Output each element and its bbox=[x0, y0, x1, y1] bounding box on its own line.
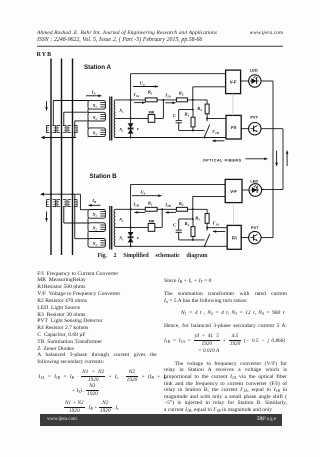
svg-text:Ns: Ns bbox=[118, 218, 123, 223]
svg-text:PVT: PVT bbox=[250, 115, 258, 120]
svg-text:I2A: I2A bbox=[164, 92, 170, 98]
svg-text:OPTICAL FIBERS: OPTICAL FIBERS bbox=[203, 158, 242, 162]
svg-text:F/I: F/I bbox=[232, 235, 237, 240]
svg-text:Ua: Ua bbox=[140, 81, 145, 87]
svg-text:z: z bbox=[136, 235, 139, 240]
svg-text:R4: R4 bbox=[185, 111, 190, 117]
svg-text:R3: R3 bbox=[195, 216, 200, 222]
svg-text:I2B: I2B bbox=[164, 202, 170, 208]
svg-text:F/I: F/I bbox=[231, 125, 236, 130]
svg-text:I′1B: I′1B bbox=[211, 129, 219, 135]
svg-text:IA: IA bbox=[91, 90, 96, 96]
svg-text:Ns: Ns bbox=[118, 237, 123, 242]
svg-text:Station B: Station B bbox=[90, 173, 118, 180]
svg-text:R1: R1 bbox=[148, 89, 153, 95]
svg-text:I1B: I1B bbox=[132, 202, 138, 208]
svg-text:MR: MR bbox=[149, 219, 155, 223]
svg-text:PVT: PVT bbox=[251, 225, 259, 230]
svg-text:I1A: I1A bbox=[133, 92, 139, 98]
svg-text:z: z bbox=[136, 126, 139, 131]
svg-text:C: C bbox=[173, 222, 176, 227]
svg-text:V-F: V-F bbox=[230, 80, 237, 85]
svg-text:LED: LED bbox=[250, 67, 258, 72]
svg-text:Ub: Ub bbox=[140, 189, 145, 195]
svg-text:Station A: Station A bbox=[84, 64, 111, 71]
svg-text:C: C bbox=[173, 113, 176, 118]
svg-text:IB: IB bbox=[91, 198, 96, 204]
svg-text:R2: R2 bbox=[179, 91, 184, 97]
svg-text:Ns: Ns bbox=[118, 109, 123, 114]
svg-text:Ns: Ns bbox=[118, 128, 123, 133]
svg-text:I′1A: I′1A bbox=[212, 220, 220, 226]
svg-text:R4: R4 bbox=[185, 221, 190, 227]
svg-text:MR: MR bbox=[149, 110, 155, 114]
svg-text:R2: R2 bbox=[179, 201, 184, 207]
svg-text:R3: R3 bbox=[197, 106, 202, 112]
svg-text:LED: LED bbox=[250, 179, 258, 184]
svg-text:R1: R1 bbox=[148, 200, 153, 206]
svg-text:V-F: V-F bbox=[230, 189, 237, 194]
svg-text:RYB: RYB bbox=[37, 52, 53, 58]
